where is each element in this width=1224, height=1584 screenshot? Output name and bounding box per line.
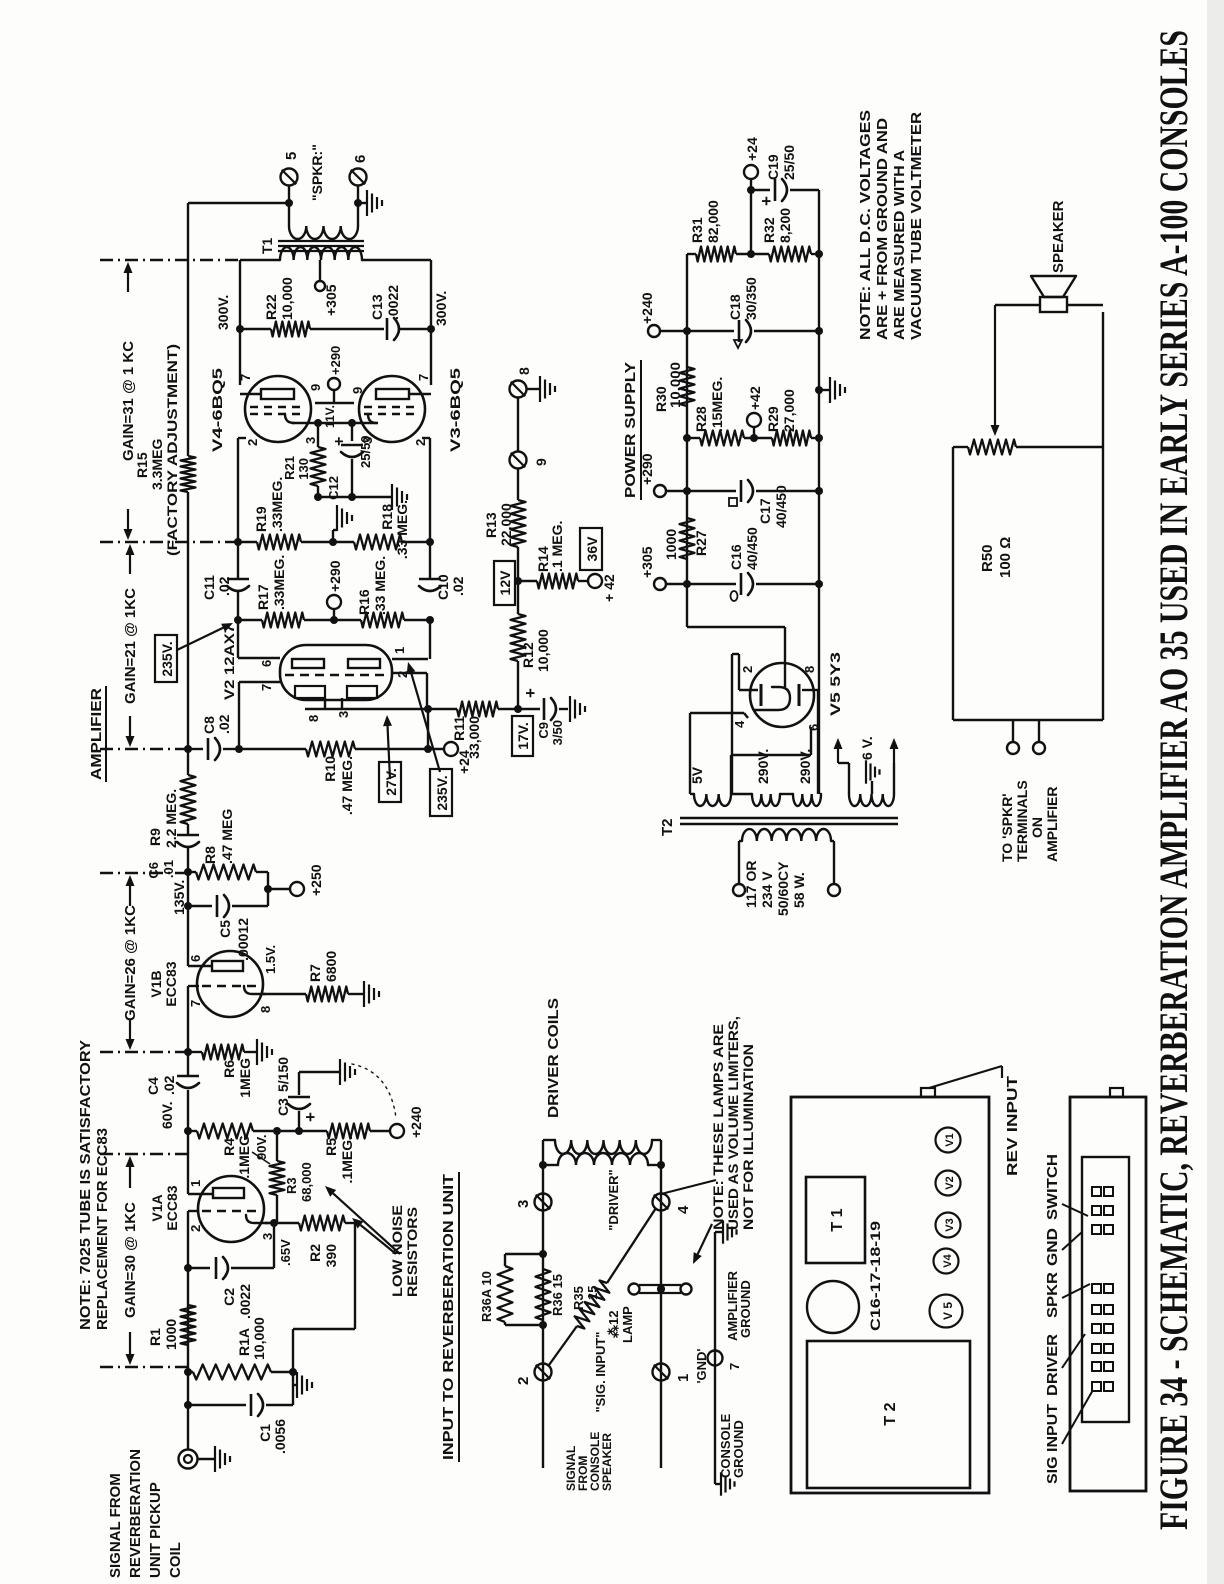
row 542: R19 R18 grid leak row bbox=[238, 541, 257, 543]
resistor R13 bbox=[511, 500, 526, 547]
V3 grid dash lines bbox=[364, 413, 420, 415]
svg-text:12V: 12V bbox=[497, 570, 513, 596]
dashed stage boundary V1B-V2 bbox=[100, 872, 186, 874]
dotted leader to +240 bbox=[352, 1064, 396, 1118]
svg-text:"DRIVER": "DRIVER" bbox=[606, 1169, 621, 1230]
svg-text:RESISTORS: RESISTORS bbox=[404, 1207, 420, 1297]
svg-text:.33 MEG.: .33 MEG. bbox=[372, 556, 388, 615]
svg-text:.00012: .00012 bbox=[235, 918, 251, 961]
row R22 C13 bbox=[240, 328, 271, 330]
svg-text:6 V.: 6 V. bbox=[859, 736, 875, 760]
svg-text:T2: T2 bbox=[659, 818, 676, 836]
capacitor C9 bbox=[518, 708, 540, 710]
wire V1A plate node rail segment bbox=[187, 1090, 189, 1194]
page edge shading bbox=[1207, 0, 1224, 1584]
ground at R1A node bbox=[293, 1371, 296, 1373]
V2 cathode line bbox=[305, 708, 457, 710]
V4 plate bar bbox=[261, 389, 294, 399]
svg-text:AMPLIFIER: AMPLIFIER bbox=[1044, 787, 1060, 862]
svg-text:5V: 5V bbox=[689, 766, 705, 784]
terminal 6 SPKR bbox=[350, 169, 367, 186]
svg-text:C13: C13 bbox=[369, 294, 385, 320]
svg-text:R36A 10: R36A 10 bbox=[479, 1271, 494, 1322]
svg-text:C1: C1 bbox=[257, 1424, 273, 1442]
svg-text:.33MEG.: .33MEG. bbox=[271, 555, 287, 610]
boxed label 12V bbox=[517, 547, 519, 614]
leader from note to terminal 4 bbox=[661, 1180, 716, 1194]
svg-text:V2 12AX7: V2 12AX7 bbox=[221, 624, 237, 700]
wire V2 plate2 to C10 bbox=[392, 658, 428, 660]
terminal 9 bbox=[510, 452, 527, 469]
chassis tab rev input bbox=[921, 1088, 935, 1097]
gain arrows stage 4 bbox=[127, 509, 129, 529]
dashed stage boundary at input bbox=[100, 1366, 187, 1368]
V3 grid stub bbox=[422, 437, 430, 439]
svg-text:40/450: 40/450 bbox=[773, 485, 789, 528]
svg-text:C3: C3 bbox=[275, 1098, 291, 1116]
V2 cathode structures bbox=[324, 698, 326, 709]
svg-text:.01: .01 bbox=[161, 860, 176, 878]
svg-text:REPLACEMENT FOR ECC83: REPLACEMENT FOR ECC83 bbox=[94, 1128, 111, 1330]
wire rail R15 to output tap bbox=[187, 203, 189, 456]
svg-text:R27: R27 bbox=[693, 530, 709, 556]
svg-text:25/50: 25/50 bbox=[781, 145, 797, 180]
svg-text:6: 6 bbox=[259, 660, 274, 667]
V4 grid dash lines bbox=[250, 413, 306, 415]
svg-text:235V.: 235V. bbox=[159, 641, 175, 676]
wire 6V top to heater arrow bbox=[848, 763, 850, 794]
transformer T2 winding 290V-1 bbox=[752, 794, 780, 806]
svg-text:10,000: 10,000 bbox=[279, 277, 295, 320]
svg-text:R29: R29 bbox=[765, 406, 781, 432]
resistor R21 bbox=[317, 423, 319, 447]
svg-text:390: 390 bbox=[323, 1244, 339, 1268]
svg-text:R22: R22 bbox=[263, 294, 279, 320]
T2 primary terminals bbox=[733, 884, 745, 896]
speaker symbol bbox=[1040, 297, 1067, 312]
svg-text:+240: +240 bbox=[408, 1106, 424, 1138]
svg-text:V4: V4 bbox=[942, 1253, 954, 1267]
capacitor C11 on plate1 line bbox=[227, 578, 249, 581]
svg-text:9: 9 bbox=[308, 384, 323, 391]
svg-text:C2: C2 bbox=[221, 1288, 237, 1306]
svg-text:C4: C4 bbox=[145, 1077, 161, 1095]
svg-text:9: 9 bbox=[350, 387, 365, 394]
svg-text:27V.: 27V. bbox=[383, 768, 399, 796]
svg-text:8: 8 bbox=[516, 367, 532, 375]
dashed stage boundary V2 grid bbox=[100, 748, 186, 750]
capacitor C2 branch bbox=[188, 1267, 210, 1269]
svg-text:R28: R28 bbox=[693, 406, 709, 432]
leader switch bbox=[1062, 1204, 1088, 1216]
svg-text:V2: V2 bbox=[944, 1176, 956, 1189]
svg-text:R1A: R1A bbox=[236, 1328, 252, 1356]
svg-text:8: 8 bbox=[802, 666, 817, 673]
ground at terminal 8 bbox=[527, 388, 539, 390]
wire V2 plate1 line bbox=[237, 592, 239, 658]
svg-text:R17: R17 bbox=[255, 584, 271, 610]
transformer T2 winding 6V bbox=[849, 794, 894, 806]
svg-text:SPEAKER: SPEAKER bbox=[600, 1433, 614, 1491]
wire rail R9 to R15 bbox=[187, 492, 189, 775]
svg-text:+290: +290 bbox=[327, 560, 343, 592]
svg-text:COIL: COIL bbox=[167, 1542, 184, 1578]
T1 box in chassis bbox=[806, 1177, 865, 1263]
V5 filament bbox=[754, 687, 790, 710]
svg-text:.0022: .0022 bbox=[237, 1284, 253, 1319]
svg-text:7: 7 bbox=[259, 684, 274, 691]
svg-text:5: 5 bbox=[283, 152, 300, 160]
svg-text:36V: 36V bbox=[584, 536, 600, 562]
svg-text:3.3MEG: 3.3MEG bbox=[149, 439, 165, 490]
resistor R2 cathode bbox=[265, 1222, 299, 1224]
svg-text:7: 7 bbox=[188, 1000, 203, 1007]
svg-text:5/150: 5/150 bbox=[275, 1057, 291, 1092]
ground symbol at bus right bbox=[715, 1231, 722, 1233]
svg-text:68,000: 68,000 bbox=[299, 1162, 314, 1202]
svg-text:GROUND: GROUND bbox=[738, 1280, 753, 1338]
svg-text:T 1: T 1 bbox=[829, 1208, 846, 1231]
capacitor C3 branch bbox=[298, 1111, 300, 1131]
svg-text:2: 2 bbox=[245, 439, 260, 446]
wire cathode return L path bbox=[293, 1328, 355, 1330]
svg-text:130: 130 bbox=[296, 458, 311, 480]
wire input ground node bbox=[292, 1329, 294, 1405]
transformer T2 primary bbox=[739, 840, 742, 842]
svg-text:3: 3 bbox=[515, 1200, 532, 1208]
svg-text:ECC83: ECC83 bbox=[163, 961, 179, 1006]
svg-text:POWER SUPPLY: POWER SUPPLY bbox=[622, 362, 639, 498]
resistor R35 diagonal bbox=[549, 1326, 577, 1365]
svg-text:8: 8 bbox=[306, 715, 321, 722]
svg-text:R35: R35 bbox=[571, 1286, 586, 1310]
svg-text:+250: +250 bbox=[308, 864, 324, 896]
C18 marker bbox=[734, 340, 742, 348]
capacitor C1 branch bbox=[188, 1404, 246, 1406]
ground at cathode row bbox=[391, 484, 393, 510]
svg-text:.0022: .0022 bbox=[385, 285, 401, 320]
V1B plate lead bbox=[188, 965, 212, 967]
svg-text:1: 1 bbox=[392, 647, 407, 654]
capacitor C6 on rail bbox=[177, 834, 199, 837]
svg-text:.1MEG.: .1MEG. bbox=[339, 1136, 355, 1183]
terminal +24 V2 bbox=[428, 748, 445, 750]
svg-text:.47 MEG: .47 MEG bbox=[219, 809, 235, 864]
wire C11 to V4 grid bbox=[237, 438, 239, 542]
wire plate node junction bbox=[295, 1127, 303, 1135]
svg-text:'GND': 'GND' bbox=[694, 1348, 709, 1383]
T1 core lines bbox=[278, 250, 364, 252]
svg-text:1.5V.: 1.5V. bbox=[263, 945, 278, 974]
wire 5V winding to pin4 bbox=[689, 713, 691, 794]
terminal +240 stage1 bbox=[390, 1124, 404, 1138]
V1A cathode hook bbox=[246, 1215, 268, 1223]
svg-text:GROUND: GROUND bbox=[731, 1420, 746, 1478]
svg-text:.1 MEG.: .1 MEG. bbox=[549, 521, 565, 572]
wire V1B plate node rail segment bbox=[187, 847, 189, 966]
svg-text:"SIG. INPUT": "SIG. INPUT" bbox=[593, 1332, 608, 1413]
gain arrows stage 2 bbox=[129, 1019, 131, 1039]
capacitor can circle bbox=[807, 1281, 859, 1333]
svg-text:3/50: 3/50 bbox=[550, 720, 565, 745]
svg-text:+290: +290 bbox=[328, 346, 343, 375]
svg-text:DRIVER: DRIVER bbox=[1044, 1334, 1061, 1396]
resistor R14 bbox=[518, 580, 537, 582]
svg-text:R16: R16 bbox=[356, 589, 372, 615]
V1B grid stub bbox=[188, 985, 199, 987]
ground at input terminal bbox=[197, 1458, 214, 1460]
svg-text:.02: .02 bbox=[216, 576, 232, 596]
resistor R5 to +240 bbox=[299, 1130, 327, 1132]
rectifier V5 envelope bbox=[750, 663, 814, 727]
dashed stage boundary V1B mid bbox=[100, 1051, 186, 1053]
svg-text:.02: .02 bbox=[450, 576, 466, 596]
R50 loop wires bbox=[952, 447, 954, 720]
svg-text:REV INPUT: REV INPUT bbox=[1004, 1076, 1021, 1176]
ground on bottom rail bbox=[819, 389, 829, 391]
driver coil right bbox=[555, 1140, 652, 1154]
chassis box bbox=[791, 1097, 989, 1493]
wire R3 to cathode line bbox=[276, 1202, 278, 1223]
svg-text:.33 MEG.: .33 MEG. bbox=[394, 500, 410, 559]
svg-text:11V.: 11V. bbox=[323, 405, 337, 428]
svg-text:82,000: 82,000 bbox=[705, 200, 721, 243]
gain arrows stage 3 bbox=[129, 716, 131, 736]
svg-text:C5: C5 bbox=[217, 920, 233, 938]
boxed label 235V arrow to R17 node bbox=[155, 635, 177, 682]
svg-text:R10: R10 bbox=[322, 756, 338, 782]
svg-text:C11: C11 bbox=[201, 575, 217, 600]
svg-text:30/350: 30/350 bbox=[743, 277, 759, 320]
resistor R7 cathode bbox=[263, 993, 306, 995]
svg-text:GAIN=30 @ 1KC: GAIN=30 @ 1KC bbox=[122, 1202, 139, 1318]
V1B grid dash line bbox=[202, 985, 257, 987]
svg-text:R12: R12 bbox=[520, 642, 536, 668]
branch C18 +240 bbox=[660, 330, 687, 332]
svg-text:V 5: V 5 bbox=[941, 1302, 955, 1320]
pentode V3 envelope bbox=[359, 376, 425, 442]
svg-text:1000: 1000 bbox=[663, 529, 679, 560]
svg-text:V5 5Y3: V5 5Y3 bbox=[827, 652, 843, 716]
V3 V4 cathode line bbox=[292, 422, 378, 424]
V5 plate bars bbox=[760, 684, 763, 706]
svg-text:R11: R11 bbox=[451, 716, 467, 741]
svg-text:7: 7 bbox=[727, 1363, 742, 1370]
svg-text:3: 3 bbox=[260, 1233, 275, 1240]
svg-text:+305: +305 bbox=[323, 284, 339, 316]
capacitor C10 on plate2 line bbox=[419, 578, 441, 581]
resistor R1 on rail bbox=[181, 1305, 196, 1345]
svg-text:ARE MEASURED WITH A: ARE MEASURED WITH A bbox=[891, 150, 908, 340]
branch C19 bbox=[751, 189, 770, 191]
leader spkr bbox=[1062, 1284, 1090, 1298]
lamp 12 bbox=[629, 1284, 640, 1295]
T2 core lines bbox=[680, 823, 898, 825]
svg-text:+: + bbox=[521, 688, 540, 698]
svg-text:TO 'SPKR': TO 'SPKR' bbox=[999, 793, 1015, 862]
tube circle V1 chassis bbox=[936, 1128, 961, 1153]
svg-text:15: 15 bbox=[585, 1286, 600, 1300]
ground at R6 bbox=[244, 1051, 256, 1053]
terminal strip tab bbox=[1110, 1088, 1123, 1097]
resistor R36 on line bbox=[536, 1269, 551, 1320]
svg-text:135V.: 135V. bbox=[171, 880, 187, 915]
svg-text:2.2 MEG.: 2.2 MEG. bbox=[163, 789, 179, 848]
tube circle V4 chassis bbox=[934, 1249, 959, 1274]
svg-text:8,200: 8,200 bbox=[777, 208, 793, 243]
svg-text:SPEAKER: SPEAKER bbox=[1050, 200, 1067, 273]
svg-text:90V.: 90V. bbox=[254, 1134, 269, 1160]
capacitor C4 on rail bbox=[177, 1075, 199, 1078]
svg-text:9: 9 bbox=[533, 458, 549, 466]
svg-text:T 2: T 2 bbox=[882, 1402, 899, 1425]
potentiometer R50 bbox=[953, 446, 968, 448]
svg-text:R5: R5 bbox=[323, 1138, 339, 1156]
gain arrows stage 1 bbox=[129, 1332, 131, 1354]
arrows low noise to R2 R3 bbox=[361, 1225, 396, 1254]
svg-text:R19: R19 bbox=[253, 506, 269, 532]
V3 plate line 300V bbox=[430, 260, 432, 385]
V2 grid1 stub bbox=[239, 681, 280, 683]
svg-text:33,000: 33,000 bbox=[466, 716, 482, 759]
svg-text:USED AS VOLUME LIMITERS,: USED AS VOLUME LIMITERS, bbox=[725, 1016, 741, 1230]
resistor R10 bias bbox=[239, 748, 306, 750]
resistor R9 on rail bbox=[181, 775, 196, 824]
terminal +24 ps bbox=[750, 178, 752, 190]
V1A plate bar bbox=[213, 1188, 244, 1198]
capacitor C8 branch bbox=[188, 748, 203, 750]
wire 9 to 8 bbox=[517, 397, 519, 452]
wire secondary to terminal 6 bbox=[357, 203, 359, 226]
pentode V4 envelope bbox=[245, 376, 311, 442]
svg-text:2: 2 bbox=[740, 666, 755, 673]
terminal 1 driver bbox=[653, 1364, 670, 1381]
terminal 5 SPKR bbox=[281, 169, 298, 186]
svg-text:4: 4 bbox=[675, 1205, 692, 1214]
svg-text:1MEG: 1MEG bbox=[237, 1058, 253, 1098]
svg-text:+290: +290 bbox=[639, 453, 655, 485]
svg-text:2: 2 bbox=[188, 1225, 203, 1232]
R50 wiper arrow from speaker bbox=[995, 304, 1040, 306]
resistor R1A branch bbox=[188, 1371, 193, 1373]
svg-text:GAIN=21 @ 1KC: GAIN=21 @ 1KC bbox=[122, 588, 139, 704]
svg-text:R9: R9 bbox=[147, 828, 163, 846]
terminal 3 driver bbox=[535, 1194, 552, 1211]
T1 center tap +305 bbox=[319, 260, 321, 281]
wire V5 plate2 to T2 bbox=[739, 689, 758, 691]
svg-text:TERMINALS: TERMINALS bbox=[1014, 780, 1030, 862]
svg-text:C19: C19 bbox=[765, 154, 781, 180]
svg-text:NOTE: THESE LAMPS ARE: NOTE: THESE LAMPS ARE bbox=[710, 1024, 726, 1230]
console ground symbol bbox=[714, 1468, 716, 1484]
triode V1A envelope bbox=[198, 1176, 264, 1242]
svg-text:SWITCH: SWITCH bbox=[1044, 1154, 1061, 1220]
svg-text:3: 3 bbox=[336, 711, 351, 718]
svg-text:"SPKR:": "SPKR:" bbox=[309, 144, 325, 201]
svg-text:.02: .02 bbox=[216, 714, 232, 734]
resistor R6 grid leak bbox=[188, 1051, 202, 1053]
branch R31 R32 bbox=[687, 253, 696, 255]
terminal GND 7 bbox=[708, 1351, 723, 1366]
transformer T1 secondary bbox=[289, 226, 358, 239]
svg-text:.47 MEG.: .47 MEG. bbox=[339, 756, 355, 815]
svg-text:R2: R2 bbox=[307, 1244, 323, 1262]
dashed stage boundary output right bbox=[100, 259, 238, 261]
wire +305 rail to V5 filament bbox=[687, 626, 785, 628]
wire V5 plate8 to T2 bbox=[802, 689, 818, 691]
resistor R3 branch bbox=[276, 1195, 278, 1202]
svg-text:290V.: 290V. bbox=[755, 749, 771, 784]
resistor R11 bbox=[457, 702, 498, 717]
svg-text:SIG INPUT: SIG INPUT bbox=[1044, 1404, 1061, 1484]
V2 grid dash line bbox=[285, 674, 387, 676]
svg-text:GND: GND bbox=[1044, 1228, 1061, 1266]
resistor R12 bbox=[517, 661, 519, 709]
wire V2 grid2 drop bbox=[392, 672, 427, 674]
heater line between 9 pins bbox=[315, 402, 354, 404]
svg-text:+24: +24 bbox=[744, 137, 760, 161]
cathode ground row bbox=[318, 496, 392, 498]
V1A plate lead bbox=[188, 1193, 213, 1195]
svg-text:C17: C17 bbox=[757, 498, 773, 524]
C17 marker bbox=[729, 498, 737, 506]
svg-text:10,000: 10,000 bbox=[535, 629, 551, 672]
ground at grid row bbox=[332, 530, 334, 542]
tube circle V2 chassis bbox=[936, 1171, 961, 1196]
power rail top bbox=[686, 254, 688, 627]
svg-text:NOT FOR ILLUMINATION: NOT FOR ILLUMINATION bbox=[740, 1044, 756, 1230]
R50 loop terminals bbox=[1012, 720, 1014, 742]
svg-text:(FACTORY ADJUSTMENT): (FACTORY ADJUSTMENT) bbox=[164, 344, 180, 556]
svg-text:R6: R6 bbox=[221, 1060, 237, 1078]
svg-text:R32: R32 bbox=[761, 217, 777, 243]
branch C16 +305 bbox=[654, 578, 666, 590]
svg-text:+: + bbox=[757, 196, 776, 206]
svg-text:R8: R8 bbox=[202, 846, 218, 864]
terminal lugs bbox=[1092, 1225, 1101, 1234]
svg-text:R50: R50 bbox=[979, 544, 996, 572]
dashed stage boundary V1A-V1B bbox=[100, 1153, 187, 1155]
svg-text:C9: C9 bbox=[536, 722, 551, 739]
wire grid2 to R11 row bbox=[427, 709, 429, 749]
svg-text:+305: +305 bbox=[639, 546, 655, 578]
power rail bottom bbox=[818, 190, 820, 794]
resistor R4 plate bbox=[188, 1130, 197, 1132]
svg-text:C6: C6 bbox=[146, 862, 161, 879]
svg-text:22,000: 22,000 bbox=[498, 503, 514, 546]
terminal +290 V2row bbox=[333, 608, 335, 620]
resistor R30 on rail bbox=[680, 367, 695, 406]
svg-text:V3: V3 bbox=[944, 1218, 956, 1231]
svg-text:V1B: V1B bbox=[148, 970, 164, 997]
svg-text:235V.: 235V. bbox=[434, 775, 450, 810]
svg-text:NOTE: ALL D.C. VOLTAGES: NOTE: ALL D.C. VOLTAGES bbox=[857, 110, 874, 340]
wire V1B grid rail segment bbox=[187, 986, 189, 1052]
svg-text:C18: C18 bbox=[727, 294, 743, 320]
svg-text:300V.: 300V. bbox=[215, 295, 231, 330]
svg-text:V1A: V1A bbox=[149, 1194, 165, 1221]
wire C10 to V3 grid bbox=[429, 438, 431, 542]
svg-text:290V.: 290V. bbox=[797, 749, 813, 784]
svg-text:R36 15: R36 15 bbox=[550, 1274, 565, 1316]
svg-text:C10: C10 bbox=[435, 574, 451, 600]
ground at C3 bbox=[339, 1059, 341, 1085]
svg-text:C8: C8 bbox=[201, 716, 217, 734]
boxed label 235V arrow to V2 pin1 bbox=[430, 769, 452, 816]
wire R8 C5 to +250 bbox=[267, 872, 269, 906]
resistor R27 on rail bbox=[680, 518, 695, 559]
svg-text:GAIN=31 @ 1 KC: GAIN=31 @ 1 KC bbox=[120, 341, 137, 461]
